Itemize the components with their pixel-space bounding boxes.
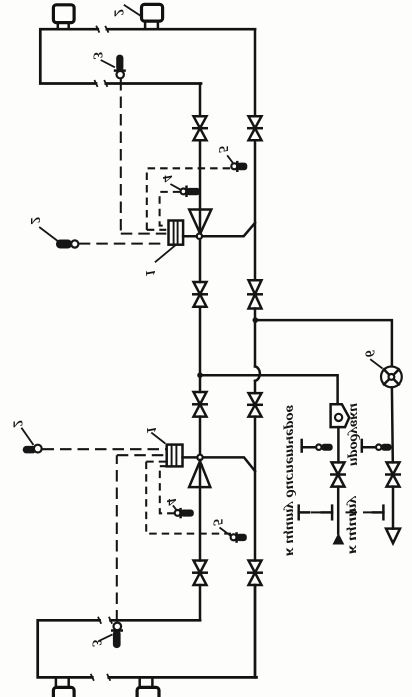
drain funnel right xyxy=(386,487,400,544)
remote terminal bar 2 xyxy=(322,504,332,520)
lower drum nozzle 2 (right) xyxy=(137,677,159,697)
sample point right xyxy=(362,439,392,453)
pipe below item 6 xyxy=(391,387,394,462)
sensor 2 (upper left manometer) xyxy=(56,240,78,249)
junction dot pipe B xyxy=(253,317,259,323)
pipe A lower segments xyxy=(199,463,202,621)
valve A1 xyxy=(192,116,208,140)
svg-text:4: 4 xyxy=(159,175,174,183)
label 5 lower xyxy=(210,519,231,536)
pipe below pentagon xyxy=(337,427,340,462)
pipe B upper segments xyxy=(254,29,257,677)
svg-text:1: 1 xyxy=(142,270,157,277)
node upper xyxy=(197,234,202,239)
svg-text:4: 4 xyxy=(163,499,178,507)
impulse line from sensor 2 upper xyxy=(79,243,167,245)
label 2 (upper nozzle) xyxy=(110,5,141,17)
regulator 1 upper xyxy=(169,221,197,245)
header line to reducer xyxy=(203,375,338,404)
svg-text:6: 6 xyxy=(361,350,376,357)
branch to pipe B upper xyxy=(202,223,255,236)
svg-text:к щиту диспетчеров: к щиту диспетчеров xyxy=(283,404,298,556)
label 1 upper xyxy=(142,245,176,276)
control funnel lower xyxy=(189,461,210,487)
valve P xyxy=(330,462,346,486)
sensor 5 lower xyxy=(231,532,247,543)
junction dot pipe A xyxy=(197,372,203,378)
valve B2 xyxy=(247,280,263,308)
upper drum shell xyxy=(40,26,255,87)
svg-text:5: 5 xyxy=(210,519,225,526)
remote dashed link 1 xyxy=(311,511,321,513)
svg-text:2: 2 xyxy=(110,9,125,17)
label 2 lower left xyxy=(9,420,33,445)
svg-text:3: 3 xyxy=(89,52,104,60)
label 4 upper xyxy=(159,175,181,190)
svg-text:1: 1 xyxy=(143,427,158,434)
valve A3 xyxy=(192,392,208,417)
impulse line sensor 2 lower xyxy=(43,448,167,450)
node lower xyxy=(197,455,202,460)
control loop boundary upper xyxy=(147,168,232,230)
sensor 3 lower drum xyxy=(111,623,123,649)
lower drum nozzle (left) xyxy=(53,677,74,697)
sensor 4 upper xyxy=(181,186,201,198)
impulse line sensor 4 upper xyxy=(160,192,181,226)
regulator 1 lower xyxy=(167,445,198,467)
impulse line from sensor 3 upper xyxy=(121,79,167,234)
valve B3 xyxy=(247,393,263,417)
valve B1 xyxy=(247,116,263,140)
valve B4 xyxy=(247,561,263,586)
crossing hop on pipe B xyxy=(255,366,260,381)
impulse line sensor 3 lower xyxy=(117,455,165,621)
header line to item 6 xyxy=(257,320,392,366)
valve R xyxy=(385,462,401,486)
label 3 lower xyxy=(89,634,113,647)
sensor 5 upper xyxy=(231,161,247,172)
item 6 elevator xyxy=(381,367,402,388)
valve A4 xyxy=(192,561,208,586)
blowdown outlet xyxy=(333,487,345,545)
label 3 (upper) xyxy=(89,52,115,67)
label 4 lower xyxy=(163,499,178,511)
control loop boundary lower xyxy=(146,462,231,534)
remote terminal bar 1 xyxy=(299,504,309,520)
svg-text:к щиту: к щиту xyxy=(346,495,361,554)
label 2 (upper left) xyxy=(27,217,58,241)
lower drum shell xyxy=(38,617,257,681)
upper drum nozzle (left) xyxy=(53,5,74,29)
remote terminal bar 3 xyxy=(373,504,383,520)
impulse line sensor 4 lower xyxy=(160,466,175,513)
sample point left xyxy=(302,439,333,453)
svg-text:продувки: продувки xyxy=(347,403,362,466)
svg-text:2: 2 xyxy=(9,420,24,428)
pipe A upper segments xyxy=(199,84,202,455)
label 1 lower xyxy=(143,427,165,444)
reducer pentagon xyxy=(331,404,350,427)
label 6 xyxy=(361,350,382,368)
sensor 3 (upper drum thermometer) xyxy=(114,55,126,79)
sensor 2 lower left xyxy=(23,445,42,454)
label 5 upper xyxy=(215,146,233,163)
control funnel upper xyxy=(189,210,211,234)
svg-text:2: 2 xyxy=(27,217,42,225)
sensor 4 lower xyxy=(175,508,194,518)
upper drum nozzle 2 (right) xyxy=(142,4,163,29)
valve A2 xyxy=(192,282,208,307)
svg-text:5: 5 xyxy=(215,146,230,153)
remote dashed link 2 xyxy=(346,511,373,513)
pipe B lower corner into drum xyxy=(254,585,257,677)
branch to pipe B lower xyxy=(203,457,255,471)
